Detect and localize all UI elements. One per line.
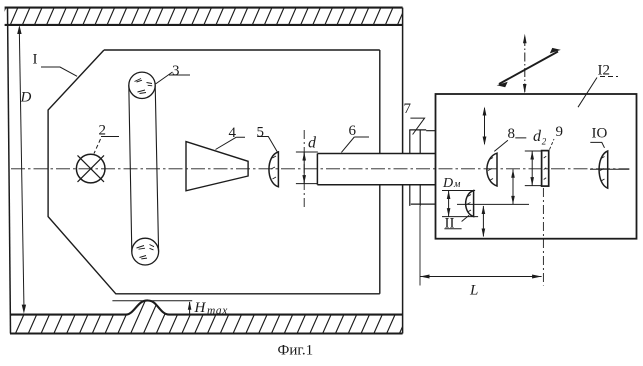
svg-text:7: 7 bbox=[404, 101, 412, 117]
svg-text:D: D bbox=[20, 90, 32, 106]
svg-text:3: 3 bbox=[172, 63, 180, 79]
svg-text:8: 8 bbox=[508, 126, 516, 142]
svg-text:2: 2 bbox=[99, 123, 107, 139]
svg-text:6: 6 bbox=[349, 123, 357, 139]
svg-text:9: 9 bbox=[556, 124, 564, 140]
svg-text:2: 2 bbox=[542, 137, 547, 147]
svg-text:Фиг.1: Фиг.1 bbox=[278, 343, 314, 359]
svg-text:max: max bbox=[207, 305, 228, 317]
svg-text:d: d bbox=[533, 128, 542, 145]
svg-text:м: м bbox=[453, 179, 461, 190]
svg-text:d: d bbox=[308, 135, 317, 152]
svg-text:D: D bbox=[442, 176, 453, 191]
svg-text:II: II bbox=[445, 216, 455, 232]
svg-text:L: L bbox=[469, 283, 478, 299]
svg-text:5: 5 bbox=[257, 125, 265, 141]
svg-text:4: 4 bbox=[229, 125, 237, 141]
svg-text:I2: I2 bbox=[598, 63, 611, 79]
svg-text:I: I bbox=[33, 52, 38, 68]
svg-text:IO: IO bbox=[592, 126, 608, 142]
svg-text:H: H bbox=[194, 300, 207, 316]
